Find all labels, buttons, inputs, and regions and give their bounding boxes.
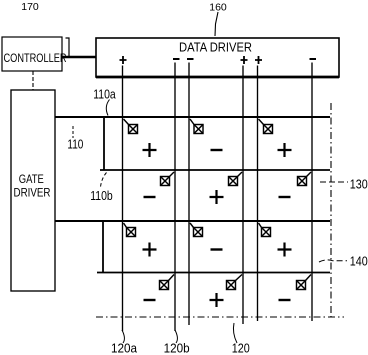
TFT R3C3 — [259, 223, 271, 237]
svg-text:170: 170 — [21, 1, 39, 13]
leader 110 dashed — [72, 126, 74, 138]
controller box — [2, 37, 62, 71]
driver polarity + on line D4 — [241, 56, 248, 64]
leader from 160 to data driver — [215, 12, 218, 36]
svg-text:CONTROLLER: CONTROLLER — [4, 51, 67, 65]
leader 120 — [233, 323, 237, 343]
gate line G2 (110b) — [100, 169, 330, 171]
pixel polarity R4C3 - — [279, 299, 291, 301]
pixel polarity R3C3 + — [278, 243, 292, 257]
svg-text:GATE: GATE — [19, 172, 44, 186]
leader 120b — [175, 330, 178, 343]
pixel polarity R3C1 + — [143, 243, 157, 257]
pixel polarity R1C1 + — [143, 143, 157, 157]
TFT R3C2 — [190, 223, 203, 237]
pixel polarity R2C1 - — [144, 196, 156, 198]
wire controller to gate driver — [32, 71, 34, 90]
TFT R4C1 — [160, 275, 175, 290]
data line D1 — [122, 66, 124, 332]
TFT R1C3 — [259, 119, 273, 134]
gate line G1 (110a) — [55, 116, 330, 118]
data line D5 — [257, 66, 259, 322]
data line D3 — [188, 63, 190, 326]
pixel polarity R4C1 - — [144, 299, 156, 301]
driver polarity - on line D2 — [173, 58, 180, 60]
TFT R2C3 — [298, 172, 312, 186]
cell edge row1 left — [103, 117, 105, 170]
svg-text:110b: 110b — [90, 188, 113, 203]
TFT R2C2 — [229, 172, 243, 186]
svg-text:120a: 120a — [111, 341, 138, 355]
leader 110a — [106, 100, 109, 116]
pixel polarity R2C3 - — [279, 196, 291, 198]
TFT R1C1 — [124, 119, 138, 134]
svg-text:DRIVER: DRIVER — [14, 186, 51, 200]
leader 140 dashed — [319, 260, 347, 262]
cell edge row3 left — [102, 221, 104, 273]
TFT R1C2 — [190, 119, 203, 134]
leader 120a — [122, 330, 125, 343]
gate line G4 — [97, 272, 330, 274]
bracket at controller top-right — [66, 38, 70, 56]
pixel polarity R2C2 + — [210, 190, 224, 204]
driver polarity - on line D3 — [187, 58, 194, 60]
driver polarity - on line D6 — [310, 58, 317, 60]
pixel polarity R3C2 - — [211, 248, 223, 250]
driver polarity + on line D1 — [120, 56, 127, 64]
gate line G3 — [55, 220, 330, 222]
svg-text:110: 110 — [67, 137, 83, 152]
data line D4 — [242, 66, 244, 325]
svg-text:160: 160 — [209, 1, 227, 13]
TFT R2C1 — [161, 172, 175, 186]
gate driver box — [11, 90, 55, 291]
TFT R3C1 — [124, 223, 136, 237]
panel bottom edge dash-dot — [96, 316, 344, 318]
svg-text:140: 140 — [350, 254, 368, 269]
pixel polarity R4C2 + — [210, 293, 224, 307]
svg-text:110a: 110a — [93, 86, 116, 101]
leader 130 dashed — [320, 181, 348, 183]
data line D2 — [174, 63, 176, 332]
svg-text:DATA DRIVER: DATA DRIVER — [179, 41, 252, 55]
data driver box — [96, 38, 339, 77]
panel right edge dash-dot — [330, 103, 332, 317]
data line D6 — [311, 63, 313, 322]
driver polarity + on line D5 — [255, 56, 262, 64]
leader 110b — [100, 173, 106, 190]
svg-text:120: 120 — [232, 341, 250, 355]
svg-text:130: 130 — [350, 176, 368, 191]
data driver bottom edge thick — [96, 76, 339, 79]
pixel polarity R1C2 - — [211, 149, 223, 151]
wire controller to data driver — [62, 56, 96, 58]
pixel polarity R1C3 + — [278, 143, 292, 157]
TFT R4C2 — [227, 275, 243, 290]
TFT R4C3 — [297, 275, 312, 290]
